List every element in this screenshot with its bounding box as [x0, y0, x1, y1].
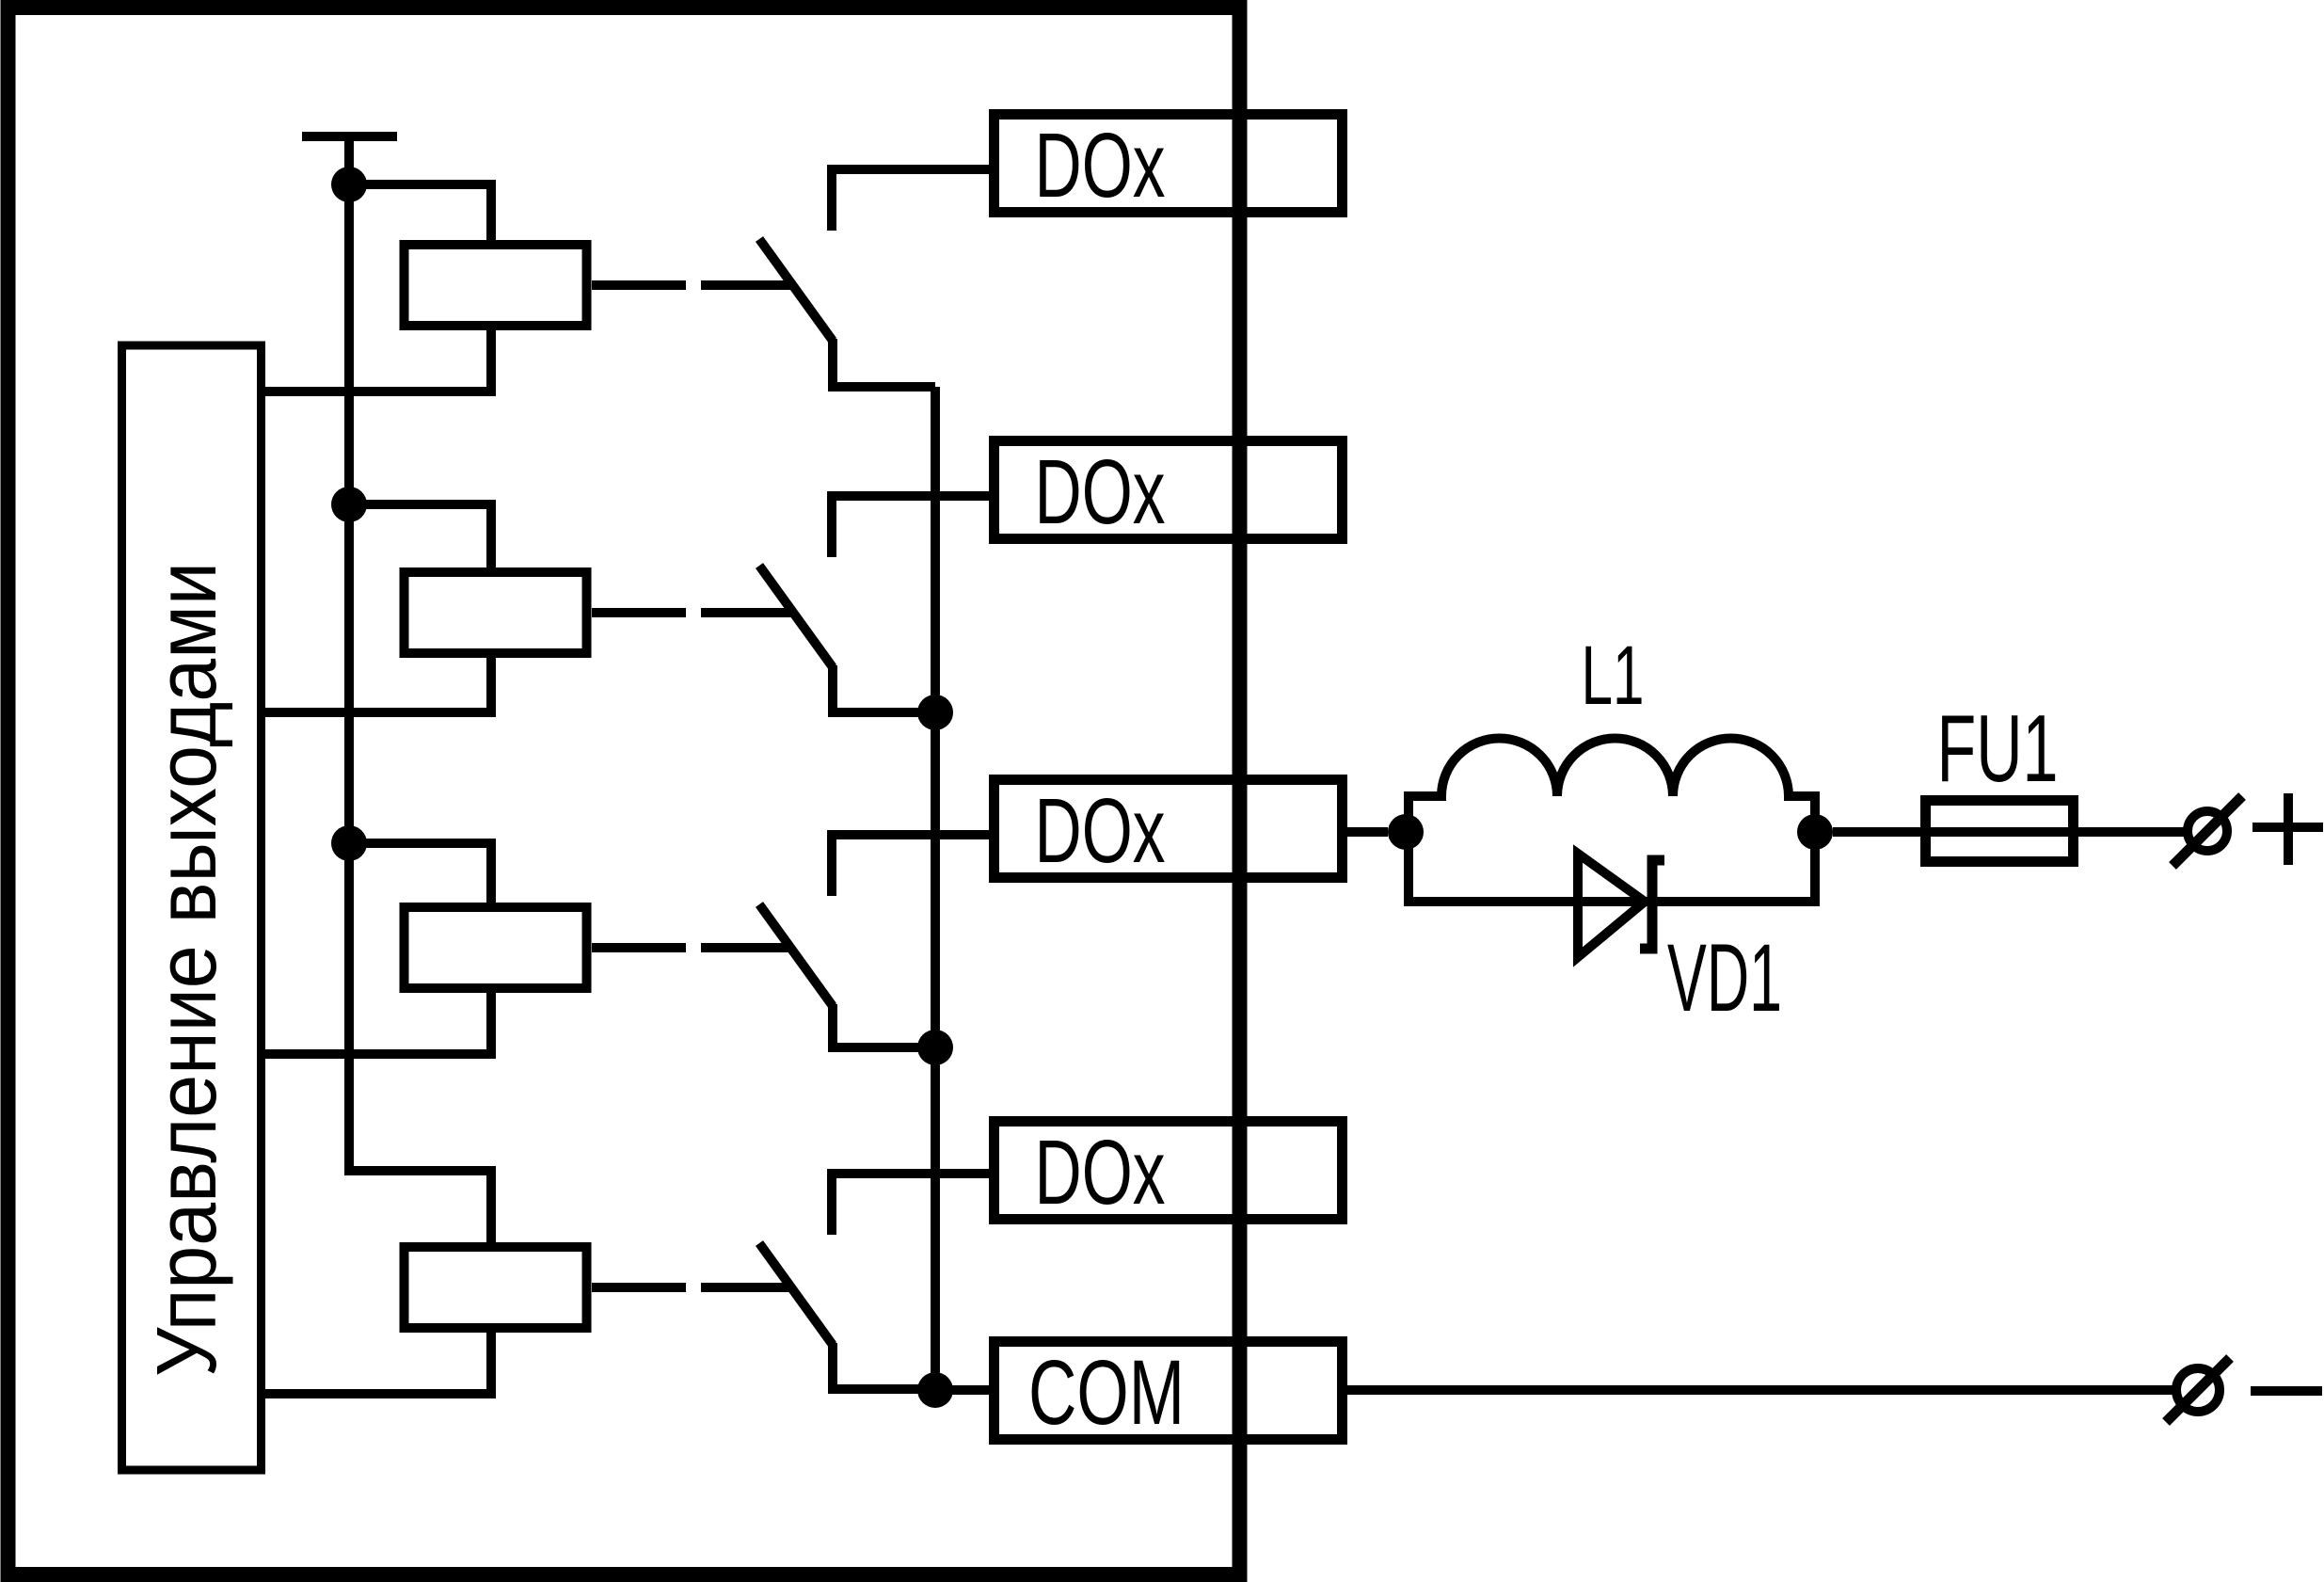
- mechanical link dash 3: [592, 943, 792, 952]
- wire contact 2 to DOx2: [832, 496, 995, 557]
- svg-text:VD1: VD1: [1667, 924, 1782, 1031]
- junction node L1 left: [1388, 814, 1424, 850]
- junction node COM: [917, 1372, 953, 1408]
- terminal circle minus: [2176, 1368, 2220, 1412]
- output control block (Управление выходами): [122, 345, 262, 1470]
- terminal circle plus: [2188, 811, 2227, 851]
- wire COM to minus terminal: [1343, 1385, 2173, 1395]
- wire contact 3 pivot: [833, 1004, 935, 1047]
- terminal slash plus: [2173, 796, 2242, 866]
- wire coil 3 top: [349, 843, 491, 907]
- mechanical link dash 1: [592, 280, 792, 290]
- svg-text:FU1: FU1: [1937, 696, 2059, 802]
- wire contact 3 to DOx3: [832, 835, 995, 896]
- terminal DOx2: [995, 441, 1343, 539]
- relay coil 4: [405, 1247, 587, 1328]
- relay contact blade 3: [759, 904, 833, 1006]
- terminal slash minus: [2166, 1358, 2230, 1422]
- wire contact 4 pivot: [833, 1343, 935, 1389]
- wire to COM terminal: [935, 1385, 995, 1395]
- wire contact 1 pivot: [833, 339, 935, 387]
- plus sign: [2252, 793, 2323, 865]
- svg-text:DOx: DOx: [1035, 440, 1166, 543]
- wire coil 3 bottom: [262, 988, 491, 1054]
- device enclosure border: [8, 8, 1240, 1574]
- wire contact 1 to DOx1: [832, 169, 995, 231]
- wire coil 2 top: [349, 504, 491, 572]
- wire coil 1 bottom: [262, 326, 491, 392]
- svg-text:DOx: DOx: [1035, 779, 1166, 882]
- svg-text:L1: L1: [1582, 628, 1645, 722]
- minus sign: [2251, 1386, 2322, 1396]
- diode VD1 triangle: [1578, 854, 1645, 957]
- junction node L1 right: [1797, 814, 1833, 850]
- junction node contact 3: [917, 1030, 953, 1065]
- wire contact 2 pivot: [833, 665, 935, 712]
- terminal DOx1: [995, 115, 1343, 213]
- wire L1 to plus terminal: [1833, 827, 2184, 837]
- power rail T terminal: [302, 136, 397, 184]
- svg-text:COM: COM: [1028, 1341, 1185, 1444]
- junction node coil 3: [331, 825, 367, 861]
- common contact bus wire: [931, 387, 940, 1390]
- relay contact blade 4: [759, 1243, 833, 1345]
- junction node coil 2: [331, 487, 367, 522]
- mechanical link dash 2: [592, 608, 792, 617]
- wire DOx3 output: [1343, 827, 1388, 837]
- junction node contact 2: [917, 695, 953, 730]
- relay coil 2: [405, 572, 587, 653]
- wire VD1 branch: [1409, 832, 1815, 902]
- fuse FU1: [1926, 801, 2074, 862]
- diode VD1 cathode: [1640, 860, 1664, 949]
- mechanical link dash 4: [592, 1283, 792, 1292]
- svg-text:Управление выходами: Управление выходами: [140, 562, 234, 1377]
- relay contact blade 1: [759, 239, 833, 341]
- coil supply bus wire: [349, 184, 491, 1247]
- relay coil 3: [405, 907, 587, 988]
- relay contact blade 2: [759, 566, 833, 667]
- wire coil 2 bottom: [262, 653, 491, 712]
- svg-text:DOx: DOx: [1035, 1121, 1166, 1223]
- terminal DOx4: [995, 1122, 1343, 1220]
- wire coil 4 bottom: [262, 1328, 491, 1394]
- terminal COM: [995, 1342, 1343, 1440]
- wire contact 4 to DOx4: [832, 1174, 995, 1235]
- junction node coil 1: [331, 167, 367, 202]
- wire coil 1 top: [349, 184, 491, 245]
- terminal DOx3: [995, 780, 1343, 878]
- svg-text:DOx: DOx: [1035, 114, 1166, 216]
- relay coil 1: [405, 245, 587, 326]
- inductor L1: [1409, 738, 1815, 832]
